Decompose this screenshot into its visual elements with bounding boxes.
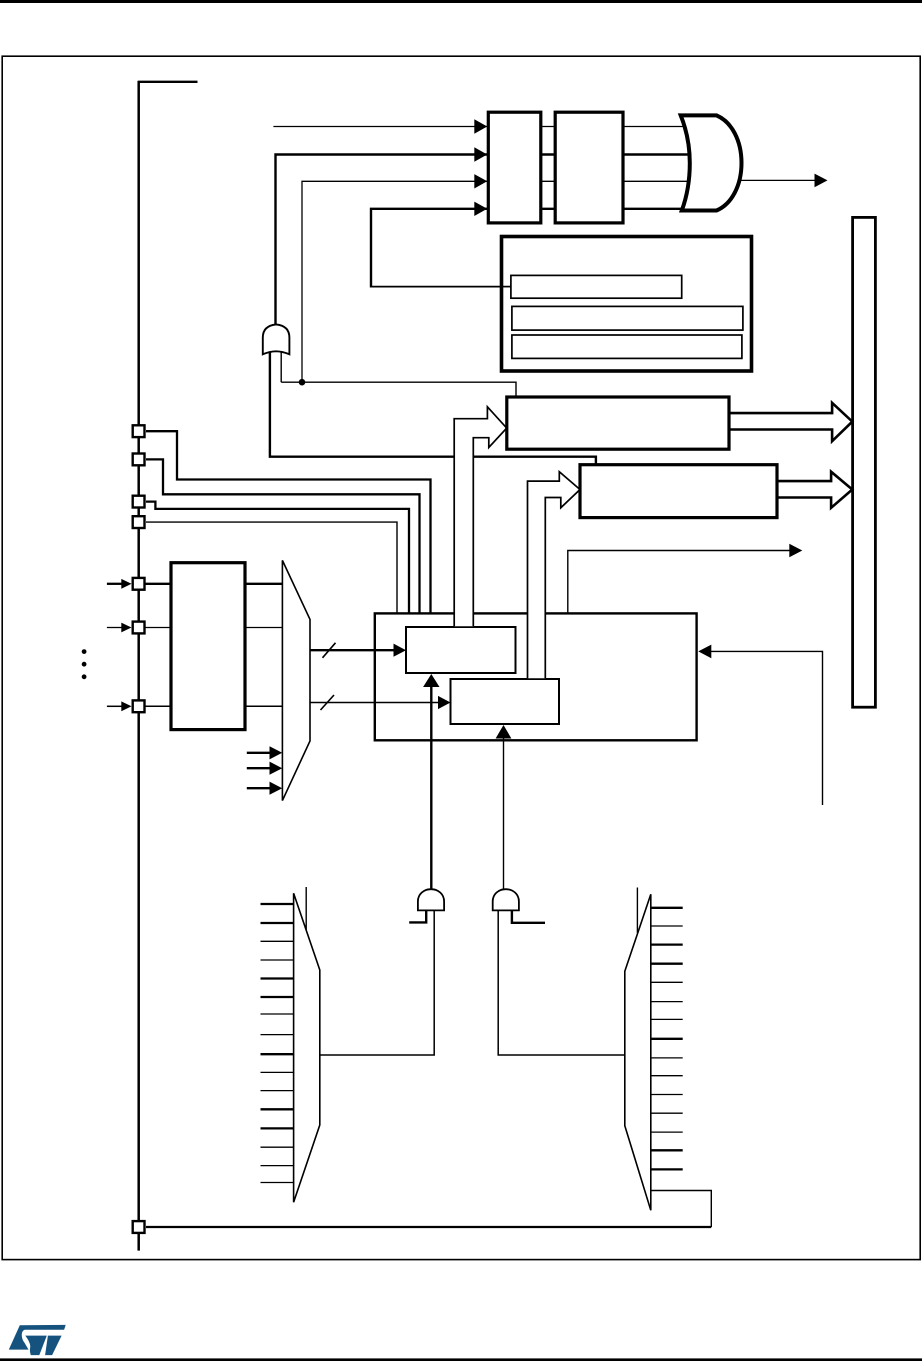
wire and-gate A2 output up [503,737,505,889]
wire mux T3 out to A2 [498,908,625,1055]
pad input arrow P6 [107,627,122,629]
wire pad7 to box G [145,705,171,707]
pad P7 [133,700,145,712]
and-gate A1 [418,889,444,910]
inner block M2 [451,679,560,724]
wire L3 [302,181,710,382]
arrowhead A2 to M2 [496,725,512,739]
wire L4 horizontal to inner reg [371,286,512,288]
mux T2 [294,893,320,1202]
wire W4 from pad P4 [146,522,397,613]
inner register H3 [512,335,742,358]
wire W2 from pad P2 [146,459,420,613]
inner register H2 [512,306,743,330]
mux T3 top stub [636,888,638,934]
slash 2 [321,695,335,710]
wire T1 out 1 [310,649,395,651]
arrowhead A1 to M1 [423,674,439,687]
wire T1 out 2 [310,702,439,704]
ST logo [9,1325,66,1355]
register box B1 [488,112,541,223]
or-gate G2 (small, up) [263,324,290,354]
register box B2 [555,112,623,223]
register box K [580,465,777,518]
arrowhead event out [789,544,802,558]
pad input arrow P7 [107,705,122,707]
wire L1 to pending register [273,126,700,128]
mux T3 input stubs [652,908,683,1170]
stub A2 [512,908,545,923]
edge detect block M [375,613,697,740]
wire W3 from pad P3 [146,502,409,614]
arrowhead L1 [474,119,487,133]
hollow arrow box K to bus [777,472,852,508]
wire L4 segment inside block H [501,286,511,288]
pad input arrow P5 [107,583,122,585]
input filter box G [171,563,245,730]
hollow bus arrow B into box K [528,472,581,679]
wire and-gate A1 output up [430,685,432,889]
pad P3 [133,496,145,508]
ellipsis dots [82,649,87,654]
pad P8 [133,1221,145,1233]
stub A1 [409,908,426,922]
pad P5 [133,578,145,590]
inner register H1 [511,275,682,298]
slash 1 [323,643,336,658]
wire mux T2 out to A1 [320,908,434,1055]
wire L4 [371,209,700,288]
wire: to box J top [281,382,516,397]
mux T1 input arrow 3 [247,787,271,789]
pad P1 [133,425,145,437]
wire pad6 to box G [145,627,171,629]
mux T1 [282,560,310,800]
APB bus bar [853,217,876,707]
wire box G to mux T1 (3) [245,705,283,707]
wire from shaft A to box K top [473,457,596,466]
footer rule [0,1358,922,1361]
pad P6 [133,622,145,634]
junction node [299,379,306,386]
register block H [502,237,752,372]
wire: OR gate right input down [280,332,282,382]
wire: top stub [138,81,198,83]
arrowhead G1 output [815,174,828,188]
hollow arrow box J to bus [729,403,852,441]
and-gate A2 [493,889,519,910]
mux T2 top stub [305,887,307,930]
arrowhead L3 [474,174,487,188]
wire G1 output [739,179,815,181]
wire: OR gate left input down to bus arrow shaft [270,332,454,457]
mux T3 [625,894,651,1210]
wire mux T3 bottom input [651,1191,712,1228]
arrowhead L2 [474,147,487,161]
wire event out [568,551,790,614]
pad P4 [133,516,145,528]
wire from right side into block M [710,651,823,805]
hollow bus arrow A into box J [454,407,507,627]
arrowhead T1 out 1 [394,644,407,657]
arrowhead L4 [474,202,487,216]
header rule [0,0,922,3]
wire box G to mux T1 (2) [245,627,283,629]
mux T2 input stubs [261,904,294,1183]
wire box G to mux T1 (1) [245,583,283,585]
or-gate G1 (big) [681,115,742,210]
wire L2 from OR gate to register [276,155,706,325]
wire pad5 to box G [145,583,171,585]
register box J [507,397,729,449]
mux T1 input arrow 1 [247,752,271,754]
wire W1 from pad P1 [146,431,431,613]
arrowhead into block M [698,645,711,659]
wire: EXTI line bus vertical [137,81,140,1251]
wire bottom bus from pad P8 [146,1226,711,1228]
inner block M1 [406,627,516,673]
arrowhead T1 out 2 [438,696,451,709]
mux T1 input arrow 2 [247,767,271,769]
pad P2 [133,454,145,466]
